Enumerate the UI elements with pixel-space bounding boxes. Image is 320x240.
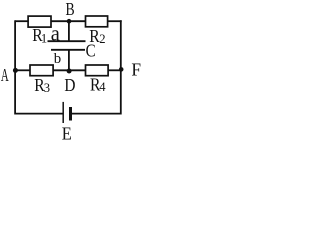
wire bottom-left to battery — [15, 113, 63, 115]
svg-text:a: a — [51, 21, 61, 46]
node B junction dot — [67, 19, 72, 24]
battery E short thick plate — [69, 107, 72, 121]
svg-text:E: E — [62, 122, 72, 140]
svg-text:3: 3 — [44, 81, 50, 95]
resistor R4 — [86, 65, 109, 76]
svg-text:F: F — [131, 59, 141, 80]
battery E long plate — [62, 102, 64, 123]
svg-text:1: 1 — [41, 32, 47, 46]
wire battery to bottom-right — [72, 113, 121, 115]
wire B between R1 and R2 — [51, 20, 86, 22]
wire B to capacitor top plate — [68, 21, 70, 41]
wire R4 to F — [108, 69, 121, 71]
node A junction dot — [13, 68, 18, 73]
wire right side — [120, 20, 122, 114]
svg-text:A: A — [1, 67, 9, 86]
resistor R2 — [86, 16, 108, 27]
resistor R1 — [28, 16, 51, 27]
svg-text:4: 4 — [99, 80, 106, 94]
wire left side — [14, 20, 16, 114]
svg-text:2: 2 — [99, 32, 105, 46]
wire top-right segment — [108, 20, 122, 22]
capacitor C top plate (underlines label a) — [48, 40, 86, 42]
wire A to R3 — [15, 69, 30, 71]
node F junction dot — [119, 67, 124, 72]
svg-text:b: b — [54, 51, 61, 67]
capacitor C bottom plate (overlines label b) — [51, 49, 85, 51]
wire top-left segment — [15, 20, 28, 22]
resistor R3 — [30, 65, 53, 76]
svg-text:B: B — [66, 0, 75, 19]
wire R3 to R4 through node D — [53, 69, 86, 71]
wire capacitor bottom plate to node D — [68, 50, 70, 71]
svg-text:D: D — [64, 75, 75, 96]
node D junction dot — [67, 69, 72, 74]
